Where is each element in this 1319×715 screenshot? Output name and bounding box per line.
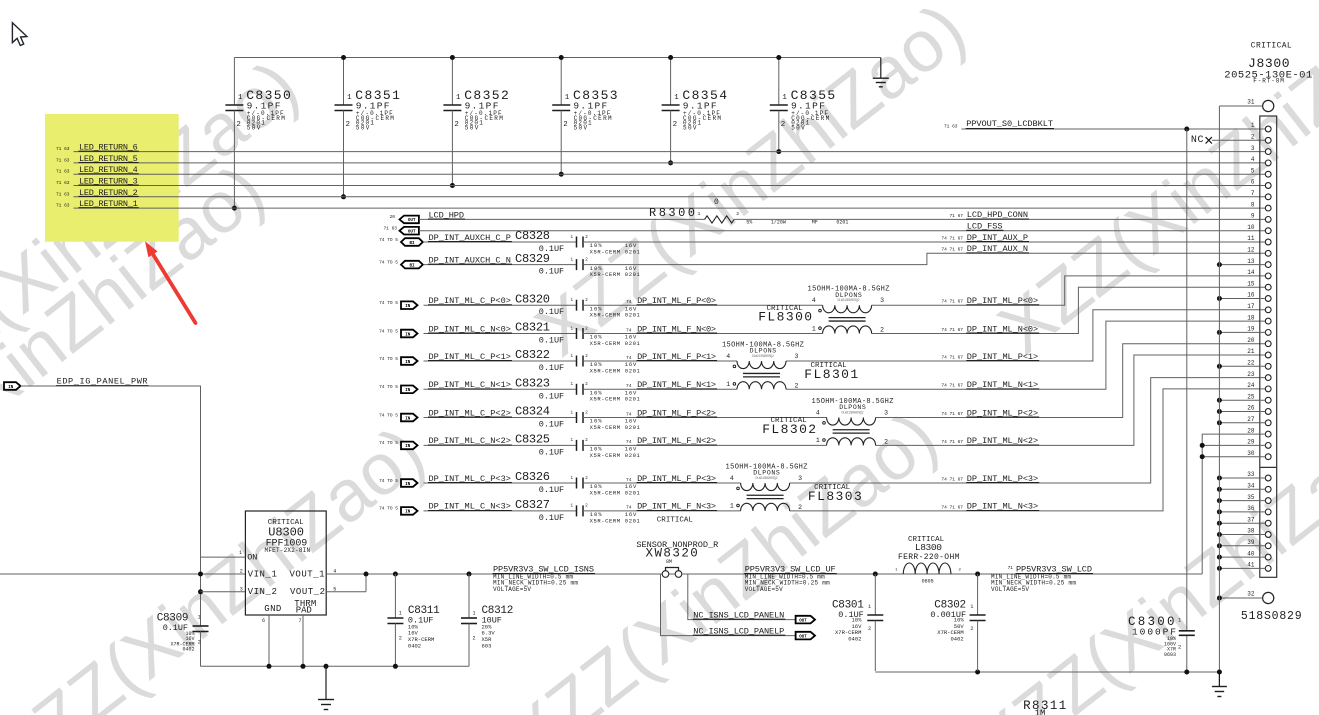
svg-text:1: 1 xyxy=(970,604,973,610)
svg-text:0.1UF: 0.1UF xyxy=(539,447,564,457)
svg-text:0201: 0201 xyxy=(625,248,641,255)
svg-text:C8323: C8323 xyxy=(515,377,550,391)
svg-text:0201: 0201 xyxy=(625,340,641,347)
svg-text:2: 2 xyxy=(473,636,476,642)
svg-text:39: 39 xyxy=(1247,539,1255,546)
svg-text:74 71 67: 74 71 67 xyxy=(941,476,963,482)
svg-text:CRITICAL: CRITICAL xyxy=(657,517,694,525)
svg-text:3: 3 xyxy=(880,297,884,304)
svg-text:X5R-CERM: X5R-CERM xyxy=(590,248,621,255)
svg-text:20: 20 xyxy=(390,214,396,220)
svg-text:1: 1 xyxy=(238,94,243,102)
svg-text:4: 4 xyxy=(816,409,820,416)
svg-text:74 71 67: 74 71 67 xyxy=(941,235,963,241)
svg-text:74 TO 5: 74 TO 5 xyxy=(379,384,398,390)
svg-text:X5R-CERM: X5R-CERM xyxy=(590,271,621,278)
svg-text:2: 2 xyxy=(868,626,871,632)
svg-text:4: 4 xyxy=(333,568,336,574)
svg-text:29: 29 xyxy=(1247,439,1255,446)
svg-text:0603: 0603 xyxy=(1164,652,1176,658)
svg-text:X5R-CERM: X5R-CERM xyxy=(590,424,621,431)
svg-text:IN: IN xyxy=(405,445,411,449)
svg-text:50V: 50V xyxy=(247,125,261,132)
svg-text:3: 3 xyxy=(1251,145,1255,152)
svg-text:2: 2 xyxy=(795,383,799,390)
svg-text:9: 9 xyxy=(1251,213,1255,220)
svg-text:26: 26 xyxy=(1247,405,1255,412)
svg-text:0.1UF: 0.1UF xyxy=(539,485,564,495)
svg-text:0.1UF: 0.1UF xyxy=(539,336,564,346)
svg-text:74 71 67: 74 71 67 xyxy=(941,247,963,253)
svg-text:74 TO 5: 74 TO 5 xyxy=(379,440,398,446)
svg-text:71 63: 71 63 xyxy=(944,123,958,129)
svg-text:16: 16 xyxy=(1247,292,1255,299)
svg-text:VOUT_1: VOUT_1 xyxy=(290,570,325,580)
svg-text:0402: 0402 xyxy=(408,642,421,649)
svg-text:0402: 0402 xyxy=(848,636,861,643)
svg-text:MF: MF xyxy=(812,220,818,226)
svg-text:NC: NC xyxy=(1191,135,1204,146)
svg-text:74: 74 xyxy=(626,477,632,483)
svg-text:0201: 0201 xyxy=(625,271,641,278)
svg-text:R8300: R8300 xyxy=(649,206,695,220)
svg-text:33: 33 xyxy=(1247,471,1255,478)
svg-text:1: 1 xyxy=(399,611,402,617)
svg-text:2: 2 xyxy=(198,639,201,645)
svg-text:CRITICAL: CRITICAL xyxy=(1251,41,1292,50)
svg-text:2: 2 xyxy=(1251,134,1255,141)
svg-text:C8320: C8320 xyxy=(515,292,550,306)
svg-text:0201: 0201 xyxy=(625,517,641,524)
svg-text:0201: 0201 xyxy=(625,367,641,374)
svg-text:74: 74 xyxy=(626,299,632,305)
svg-text:74: 74 xyxy=(626,355,632,361)
svg-text:13: 13 xyxy=(1247,258,1255,265)
svg-text:71 67: 71 67 xyxy=(949,213,963,219)
svg-text:C8322: C8322 xyxy=(515,348,550,362)
svg-text:12: 12 xyxy=(1247,247,1255,254)
svg-text:41: 41 xyxy=(1247,562,1255,569)
svg-text:74 71 67: 74 71 67 xyxy=(941,354,963,360)
svg-text:8M: 8M xyxy=(666,559,672,565)
svg-text:23: 23 xyxy=(1247,371,1255,378)
svg-text:2: 2 xyxy=(454,121,459,129)
svg-text:DLW21SN900SQ2: DLW21SN900SQ2 xyxy=(838,298,860,302)
svg-text:4: 4 xyxy=(812,297,816,304)
svg-text:1: 1 xyxy=(198,614,201,620)
svg-text:71 63: 71 63 xyxy=(56,146,70,152)
svg-text:1: 1 xyxy=(868,604,871,610)
svg-text:74 TO 5: 74 TO 5 xyxy=(379,356,398,362)
svg-text:1: 1 xyxy=(1251,122,1255,129)
svg-text:74 TO 5: 74 TO 5 xyxy=(379,237,398,243)
svg-text:71 63: 71 63 xyxy=(56,157,70,163)
svg-text:50V: 50V xyxy=(574,125,588,132)
svg-text:74 TO 5: 74 TO 5 xyxy=(379,328,398,334)
svg-text:X5R-CERM: X5R-CERM xyxy=(590,452,621,459)
svg-text:VIN_1: VIN_1 xyxy=(248,570,277,580)
svg-text:X5R-CERM: X5R-CERM xyxy=(590,340,621,347)
svg-text:PAD: PAD xyxy=(296,605,312,615)
svg-text:4: 4 xyxy=(730,475,734,482)
svg-text:74 71 67: 74 71 67 xyxy=(941,327,963,333)
svg-text:IN: IN xyxy=(405,305,411,309)
svg-text:0.1UF: 0.1UF xyxy=(539,420,564,430)
svg-text:1: 1 xyxy=(239,550,242,556)
svg-text:1: 1 xyxy=(347,94,352,102)
svg-text:3: 3 xyxy=(884,409,888,416)
svg-text:0.1UF: 0.1UF xyxy=(163,623,188,633)
svg-text:24: 24 xyxy=(1247,382,1255,389)
svg-text:74 TO 5: 74 TO 5 xyxy=(379,300,398,306)
svg-text:0201: 0201 xyxy=(625,452,641,459)
svg-text:50V: 50V xyxy=(465,125,479,132)
svg-text:2: 2 xyxy=(970,626,973,632)
svg-text:EDP_IG_PANEL_PWR: EDP_IG_PANEL_PWR xyxy=(57,376,148,386)
svg-text:VOLTAGE=5V: VOLTAGE=5V xyxy=(493,586,531,593)
svg-text:0402: 0402 xyxy=(182,647,194,653)
svg-text:C8329: C8329 xyxy=(515,252,550,266)
svg-text:6: 6 xyxy=(1251,179,1255,186)
svg-text:2: 2 xyxy=(673,121,678,129)
svg-text:6: 6 xyxy=(262,618,265,624)
svg-text:VOLTAGE=5V: VOLTAGE=5V xyxy=(991,586,1029,593)
svg-text:50V: 50V xyxy=(683,125,697,132)
svg-text:IN: IN xyxy=(405,389,411,393)
svg-text:DLW21SN900SQ2: DLW21SN900SQ2 xyxy=(842,411,864,415)
svg-text:2: 2 xyxy=(563,121,568,129)
svg-text:2: 2 xyxy=(798,504,802,511)
svg-text:74 TO 5: 74 TO 5 xyxy=(379,506,398,512)
svg-text:74 71 67: 74 71 67 xyxy=(941,299,963,305)
svg-text:0201: 0201 xyxy=(625,424,641,431)
svg-text:74: 74 xyxy=(626,411,632,417)
svg-text:74: 74 xyxy=(626,505,632,511)
svg-text:X5R-CERM: X5R-CERM xyxy=(590,517,621,524)
svg-text:0805: 0805 xyxy=(922,579,934,585)
svg-text:0.1UF: 0.1UF xyxy=(539,363,564,373)
svg-text:10: 10 xyxy=(1247,224,1255,231)
svg-text:DLW21SN900SQ2: DLW21SN900SQ2 xyxy=(756,476,778,480)
svg-text:GND: GND xyxy=(264,604,281,614)
svg-text:FERR-220-OHM: FERR-220-OHM xyxy=(898,553,960,562)
svg-text:71 63: 71 63 xyxy=(383,226,397,232)
svg-text:VIN_2: VIN_2 xyxy=(248,587,277,597)
svg-text:X5R-CERM: X5R-CERM xyxy=(590,396,621,403)
svg-text:0201: 0201 xyxy=(836,220,848,226)
svg-text:25: 25 xyxy=(1247,393,1255,400)
svg-text:74 71 67: 74 71 67 xyxy=(941,439,963,445)
svg-text:IN: IN xyxy=(405,417,411,421)
svg-text:0.1UF: 0.1UF xyxy=(539,391,564,401)
svg-text:14: 14 xyxy=(1247,269,1255,276)
svg-text:603: 603 xyxy=(482,642,492,649)
svg-text:35: 35 xyxy=(1247,494,1255,501)
svg-text:3: 3 xyxy=(798,475,802,482)
svg-text:IN: IN xyxy=(405,333,411,337)
svg-text:BI: BI xyxy=(409,264,415,268)
svg-text:32: 32 xyxy=(1247,591,1255,598)
svg-text:37: 37 xyxy=(1247,516,1255,523)
svg-text:4: 4 xyxy=(726,353,730,360)
svg-text:27: 27 xyxy=(1247,416,1255,423)
svg-text:71 63: 71 63 xyxy=(56,169,70,175)
svg-text:19: 19 xyxy=(1247,326,1255,333)
svg-text:X5R-CERM: X5R-CERM xyxy=(590,367,621,374)
svg-text:3: 3 xyxy=(795,353,799,360)
svg-text:2: 2 xyxy=(880,327,884,334)
svg-text:0.1UF: 0.1UF xyxy=(539,267,564,277)
svg-text:C8327: C8327 xyxy=(515,498,550,512)
svg-text:74 TO 5: 74 TO 5 xyxy=(379,259,398,265)
svg-text:U8300: U8300 xyxy=(268,526,304,540)
svg-text:0201: 0201 xyxy=(625,489,641,496)
svg-text:0402: 0402 xyxy=(950,636,963,643)
svg-text:40: 40 xyxy=(1247,550,1255,557)
svg-text:31: 31 xyxy=(1247,99,1255,106)
svg-text:C8326: C8326 xyxy=(515,470,550,484)
svg-text:50V: 50V xyxy=(356,125,370,132)
svg-text:17: 17 xyxy=(1247,303,1255,310)
svg-text:2: 2 xyxy=(346,121,351,129)
svg-text:71 63: 71 63 xyxy=(56,203,70,209)
svg-text:22: 22 xyxy=(1247,360,1255,367)
svg-text:C8321: C8321 xyxy=(515,321,550,335)
svg-text:74 71 67: 74 71 67 xyxy=(941,411,963,417)
svg-text:74 71 67: 74 71 67 xyxy=(941,383,963,389)
svg-text:ON: ON xyxy=(247,552,257,562)
svg-text:C8328: C8328 xyxy=(515,229,550,243)
svg-text:2: 2 xyxy=(240,568,243,574)
svg-text:1: 1 xyxy=(782,94,787,102)
svg-text:518S0829: 518S0829 xyxy=(1241,610,1302,623)
svg-text:74 TO 5: 74 TO 5 xyxy=(379,412,398,418)
svg-text:2: 2 xyxy=(736,211,739,217)
svg-text:4: 4 xyxy=(1251,156,1255,163)
svg-text:30: 30 xyxy=(1247,450,1255,457)
svg-text:38: 38 xyxy=(1247,528,1255,535)
svg-text:15: 15 xyxy=(1247,280,1255,287)
svg-text:71: 71 xyxy=(1008,565,1014,571)
svg-text:0.1UF: 0.1UF xyxy=(539,513,564,523)
svg-text:OUT: OUT xyxy=(408,219,416,223)
svg-text:F-RT-8M: F-RT-8M xyxy=(1253,78,1284,85)
svg-text:7: 7 xyxy=(298,618,301,624)
svg-text:71 63: 71 63 xyxy=(56,180,70,186)
svg-text:1: 1 xyxy=(698,211,701,217)
svg-text:OUT: OUT xyxy=(799,635,807,639)
svg-text:0.1UF: 0.1UF xyxy=(539,307,564,317)
svg-text:2: 2 xyxy=(236,121,241,129)
svg-text:1: 1 xyxy=(726,381,730,388)
svg-text:2: 2 xyxy=(1178,644,1181,651)
svg-text:0201: 0201 xyxy=(625,312,641,319)
svg-text:MFET-2X2-8IN: MFET-2X2-8IN xyxy=(265,547,311,554)
svg-text:2: 2 xyxy=(884,439,888,446)
svg-text:21: 21 xyxy=(1247,348,1255,355)
svg-text:1M: 1M xyxy=(1035,709,1046,715)
svg-text:BI: BI xyxy=(409,242,415,246)
svg-text:11: 11 xyxy=(1247,235,1255,242)
svg-text:1: 1 xyxy=(674,94,679,102)
svg-text:X5R-CERM: X5R-CERM xyxy=(590,489,621,496)
svg-text:1: 1 xyxy=(565,94,570,102)
svg-text:8: 8 xyxy=(1251,201,1255,208)
svg-text:7: 7 xyxy=(1251,190,1255,197)
svg-text:74: 74 xyxy=(626,439,632,445)
svg-text:0201: 0201 xyxy=(625,396,641,403)
svg-text:1: 1 xyxy=(456,94,461,102)
svg-text:3: 3 xyxy=(240,586,243,592)
svg-text:28: 28 xyxy=(1247,427,1255,434)
svg-text:IN: IN xyxy=(405,361,411,365)
svg-text:5: 5 xyxy=(1251,167,1255,174)
svg-text:IN: IN xyxy=(405,511,411,515)
svg-text:1: 1 xyxy=(473,611,476,617)
svg-text:C8324: C8324 xyxy=(515,405,550,419)
svg-text:C8325: C8325 xyxy=(515,433,550,447)
svg-text:OUT: OUT xyxy=(408,231,416,235)
svg-text:1: 1 xyxy=(730,503,734,510)
svg-text:1: 1 xyxy=(816,437,820,444)
svg-text:L8300: L8300 xyxy=(915,542,942,553)
svg-text:VOUT_2: VOUT_2 xyxy=(290,587,325,597)
svg-text:2: 2 xyxy=(781,121,786,129)
svg-text:34: 34 xyxy=(1247,483,1255,490)
svg-text:IN: IN xyxy=(8,386,14,390)
svg-text:1: 1 xyxy=(812,325,816,332)
svg-text:DLW21SN900SQ2: DLW21SN900SQ2 xyxy=(752,354,774,358)
svg-text:IN: IN xyxy=(405,483,411,487)
svg-text:74 TO 5: 74 TO 5 xyxy=(379,478,398,484)
svg-text:18: 18 xyxy=(1247,314,1255,321)
svg-text:36: 36 xyxy=(1247,505,1255,512)
svg-text:71 63: 71 63 xyxy=(56,191,70,197)
svg-text:74 71 67: 74 71 67 xyxy=(941,504,963,510)
svg-text:74: 74 xyxy=(626,327,632,333)
svg-text:OUT: OUT xyxy=(799,619,807,623)
svg-text:50V: 50V xyxy=(791,125,805,132)
svg-text:5%: 5% xyxy=(746,220,752,226)
svg-text:X5R-CERM: X5R-CERM xyxy=(590,312,621,319)
svg-text:1/20W: 1/20W xyxy=(771,220,786,226)
svg-text:PPVOUT_S0_LCDBKLT: PPVOUT_S0_LCDBKLT xyxy=(966,119,1053,129)
svg-text:0: 0 xyxy=(714,198,719,207)
svg-text:74: 74 xyxy=(626,383,632,389)
svg-text:VOLTAGE=5V: VOLTAGE=5V xyxy=(745,586,783,593)
svg-text:2: 2 xyxy=(399,636,402,642)
svg-text:20: 20 xyxy=(1247,337,1255,344)
